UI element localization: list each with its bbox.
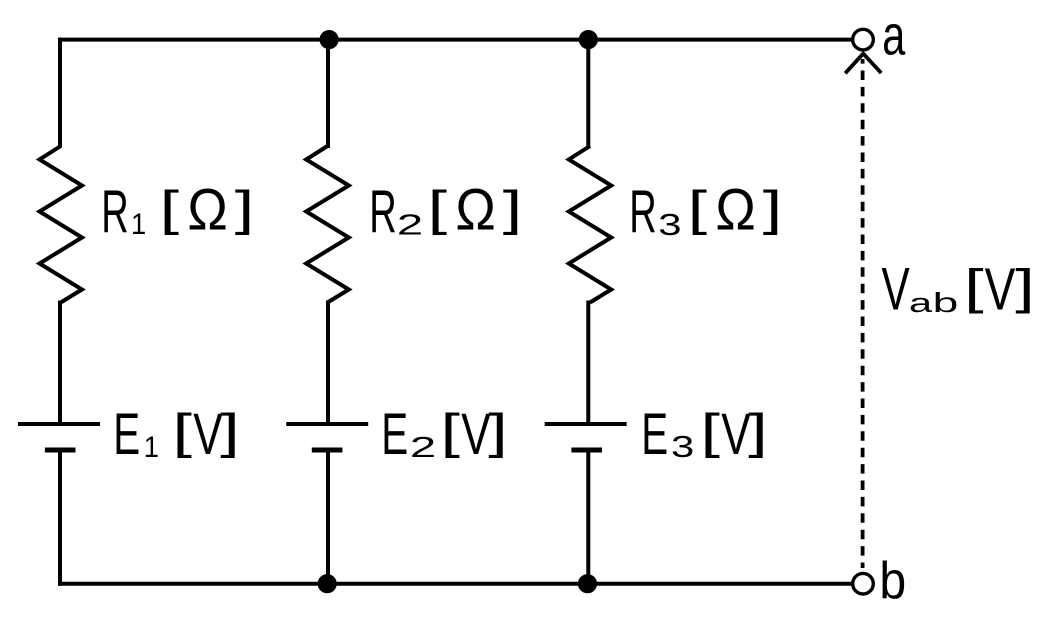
wire branch 2 top [326,38,330,148]
svg-text:]: ] [1015,259,1034,314]
svg-text:3: 3 [658,207,681,242]
svg-text:Ω: Ω [715,177,755,242]
svg-text:]: ] [220,404,239,459]
battery E3 positive plate [545,422,627,426]
svg-text:R: R [629,179,656,246]
svg-text:[: [ [441,404,461,459]
svg-text:[: [ [701,404,721,459]
svg-text:[: [ [160,180,180,235]
terminal b [853,573,874,594]
resistor R2 [306,146,349,303]
label R1[ohm] [101,177,254,246]
label Vab[V] [882,255,1035,323]
wire branch 3 bottom [586,450,590,586]
svg-text:V: V [461,401,491,466]
wire branch 1 top [58,38,62,148]
svg-text:2: 2 [397,209,423,241]
svg-text:b: b [879,551,906,609]
svg-text:]: ] [235,180,254,235]
battery E2 positive plate [286,422,368,426]
node b label [879,551,906,609]
svg-text:V: V [985,257,1016,323]
battery E1 positive plate [18,422,100,426]
label R2[ohm] [369,177,522,246]
junction node bottom branch 2 [318,574,337,593]
svg-text:2: 2 [410,432,436,464]
resistor R3 [569,146,611,303]
wire top rail (node a side) [58,38,853,42]
wire branch 1 middle [58,301,62,425]
junction node bottom branch 3 [578,574,597,593]
svg-text:1: 1 [144,431,159,464]
label R3[ohm] [629,177,782,246]
svg-text:1: 1 [131,208,146,241]
svg-text:V: V [721,401,751,466]
svg-text:]: ] [763,180,782,235]
junction node top branch 2 [320,30,339,49]
svg-text:]: ] [488,404,507,459]
svg-text:R: R [369,179,396,246]
arrow head of Vab pointing at terminal a [845,54,881,74]
wire branch 2 middle [326,301,330,425]
resistor R1 [40,146,83,303]
junction node top branch 3 [579,30,598,49]
node a label [882,3,905,67]
dashed line Vab [861,59,865,568]
svg-text:[: [ [173,404,193,459]
wire branch 1 bottom [58,450,62,586]
wire branch 2 bottom [326,450,330,586]
svg-text:Ω: Ω [455,177,495,242]
wire branch 3 middle [586,301,590,425]
label E1[V] [113,401,240,467]
svg-text:a: a [909,288,933,318]
svg-text:[: [ [688,180,708,235]
svg-text:E: E [641,402,668,467]
svg-text:V: V [882,255,911,322]
svg-text:a: a [882,3,905,67]
terminal a [853,29,874,50]
svg-text:3: 3 [671,429,694,464]
svg-text:R: R [101,179,128,246]
svg-text:]: ] [503,180,522,235]
wire bottom rail (node b side) [58,582,853,586]
battery E1 negative plate [45,448,76,453]
label E3[V] [641,401,768,467]
svg-text:V: V [193,401,223,466]
battery E3 negative plate [571,448,602,453]
wire branch 3 top [586,38,590,148]
svg-text:E: E [381,402,408,467]
svg-text:[: [ [428,180,448,235]
label E2[V] [381,401,508,467]
battery E2 negative plate [312,448,343,453]
svg-text:E: E [113,402,140,467]
svg-text:b: b [933,287,959,319]
svg-text:[: [ [964,259,984,314]
svg-text:Ω: Ω [187,177,227,242]
svg-text:]: ] [748,404,767,459]
